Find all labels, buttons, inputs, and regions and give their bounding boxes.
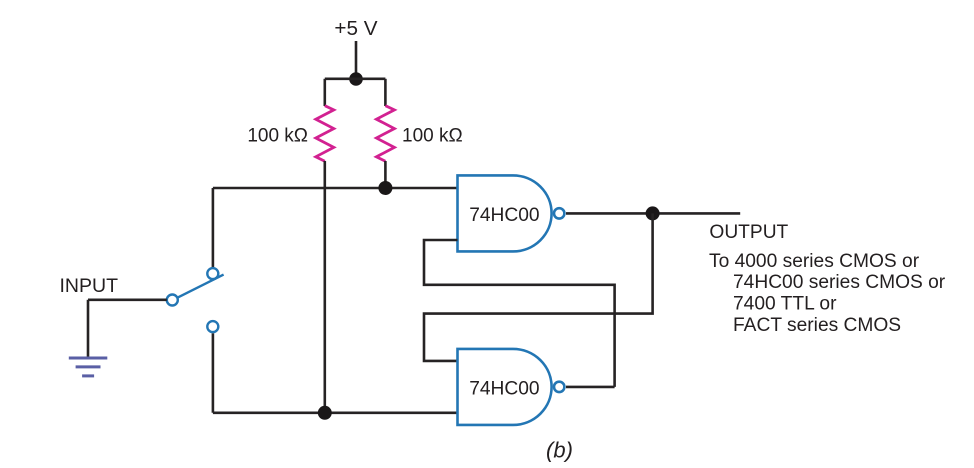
wire ground drop — [87, 300, 90, 357]
ground — [69, 358, 108, 376]
wire input pole horizontal — [88, 298, 167, 301]
svg-text:100 kΩ: 100 kΩ — [402, 126, 463, 147]
svg-text:FACT series CMOS: FACT series CMOS — [733, 315, 901, 336]
switch S1 bottom throw contact — [207, 321, 218, 332]
junction +5V node — [349, 72, 363, 86]
svg-text:+5 V: +5 V — [334, 17, 377, 40]
wire U2 output — [566, 386, 615, 389]
resistor R1 100 kOhm left — [316, 106, 334, 162]
wire bottom rail to U2 input B — [213, 411, 458, 414]
wire feedback U2-out to U1-in — [424, 240, 615, 387]
NAND gate U1 — [458, 175, 565, 251]
svg-text:7400 TTL or: 7400 TTL or — [733, 294, 837, 315]
wire R1 bottom lead to bottom rail — [323, 161, 326, 413]
junction node top rail — [378, 181, 392, 195]
svg-text:100 kΩ: 100 kΩ — [247, 126, 308, 147]
switch S1 top throw contact — [207, 268, 218, 279]
NAND gate U2 — [458, 349, 565, 425]
wire switch bottom throw vertical — [212, 333, 215, 413]
wire U1 output — [566, 212, 740, 215]
note output destinations — [709, 251, 946, 336]
switch S1 arm — [178, 275, 224, 298]
svg-text:To 4000 series CMOS or: To 4000 series CMOS or — [709, 251, 920, 272]
svg-text:(b): (b) — [546, 438, 573, 463]
svg-text:74HC00: 74HC00 — [469, 378, 539, 399]
svg-text:74HC00 series CMOS or: 74HC00 series CMOS or — [733, 272, 946, 293]
wire feedback U1-out to U2-in — [424, 213, 653, 361]
junction node bottom rail — [318, 406, 332, 420]
junction node OUTPUT — [646, 206, 660, 220]
resistor R2 100 kOhm right — [376, 106, 394, 162]
switch S1 pole contact — [167, 295, 178, 306]
wire R1 top lead — [323, 79, 326, 106]
wire R2 bottom lead — [384, 161, 387, 188]
wire +5V vertical — [355, 41, 358, 79]
wire switch top throw vertical — [212, 188, 215, 267]
wire +5V rail horizontal — [325, 78, 386, 81]
wire R2 top lead — [384, 79, 387, 106]
wire top rail to U1 input A — [213, 187, 458, 190]
svg-text:74HC00: 74HC00 — [469, 205, 539, 226]
svg-text:INPUT: INPUT — [60, 275, 119, 297]
svg-text:OUTPUT: OUTPUT — [709, 222, 788, 243]
